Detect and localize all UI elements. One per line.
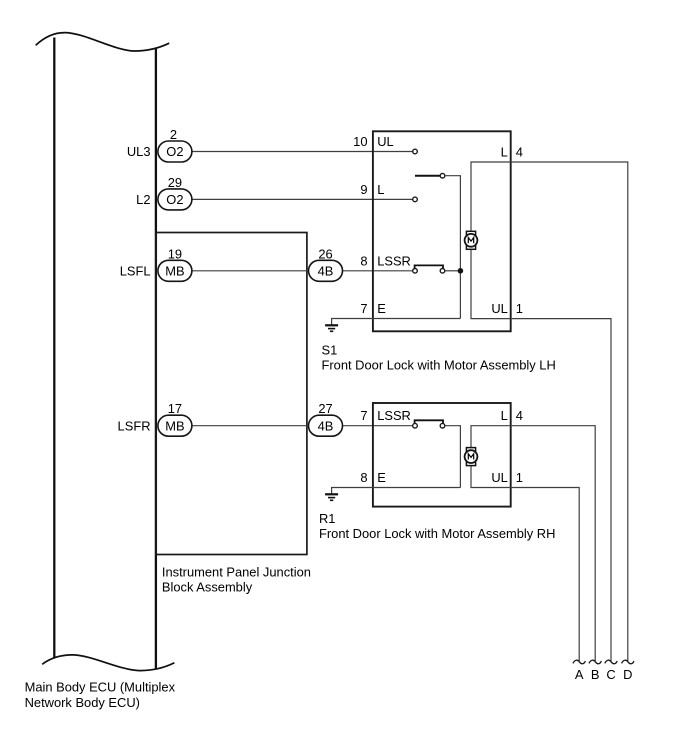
wire break D bbox=[622, 660, 634, 664]
pin 9 terminal bbox=[413, 197, 418, 202]
ground R1 bbox=[325, 494, 338, 500]
connector O2 pin 2 bbox=[158, 141, 192, 162]
svg-text:Block Assembly: Block Assembly bbox=[162, 580, 253, 595]
svg-text:E: E bbox=[377, 470, 386, 485]
switch arm (common pole) bbox=[415, 175, 440, 177]
wire L2 row: O2 oval to LH pin 9 bbox=[192, 198, 413, 200]
wire from arm to common vertical bbox=[445, 176, 461, 319]
wire LSSR contact to junction bbox=[445, 270, 461, 272]
wire UL3 row: O2 oval to LH pin 10 bbox=[192, 151, 413, 153]
pin 10 terminal bbox=[413, 149, 418, 154]
svg-text:UL: UL bbox=[377, 134, 393, 149]
bus bottom break (wavy line) bbox=[42, 655, 174, 671]
Main Body ECU bus: left vertical line bbox=[53, 38, 55, 658]
svg-text:7: 7 bbox=[360, 408, 367, 423]
Main Body ECU bus: right vertical line bbox=[155, 49, 157, 669]
svg-text:17: 17 bbox=[168, 401, 182, 416]
svg-text:29: 29 bbox=[168, 175, 182, 190]
wire break A bbox=[573, 660, 585, 664]
connector MB pin 19 bbox=[158, 260, 192, 281]
svg-text:S1: S1 bbox=[322, 343, 338, 358]
svg-text:UL: UL bbox=[491, 470, 507, 485]
svg-text:MB: MB bbox=[165, 418, 184, 433]
wire E to ground RH bbox=[332, 488, 461, 494]
wire break C bbox=[605, 660, 617, 664]
connector 4B pin 26 bbox=[309, 260, 343, 281]
svg-text:19: 19 bbox=[168, 246, 182, 261]
svg-text:LSFL: LSFL bbox=[120, 264, 151, 279]
motor circuit wire RH bbox=[471, 426, 595, 661]
svg-text:LSSR: LSSR bbox=[377, 408, 411, 423]
svg-text:8: 8 bbox=[360, 470, 367, 485]
svg-text:Instrument Panel Junction: Instrument Panel Junction bbox=[162, 565, 311, 580]
svg-text:O2: O2 bbox=[166, 144, 183, 159]
svg-text:Front Door Lock with Motor Ass: Front Door Lock with Motor Assembly RH bbox=[319, 526, 555, 541]
svg-text:1: 1 bbox=[516, 301, 523, 316]
Instrument Panel Junction Block Assembly box bbox=[156, 233, 307, 555]
switch LSSR closed contact bbox=[413, 269, 418, 274]
svg-text:UL3: UL3 bbox=[127, 144, 151, 159]
svg-text:4: 4 bbox=[516, 145, 523, 160]
wire break B bbox=[589, 660, 601, 664]
svg-text:L: L bbox=[501, 408, 508, 423]
svg-text:9: 9 bbox=[360, 182, 367, 197]
svg-text:Main Body ECU (Multiplex: Main Body ECU (Multiplex bbox=[25, 680, 176, 695]
svg-text:7: 7 bbox=[360, 301, 367, 316]
wire E to ground bbox=[332, 319, 461, 325]
junction dot bbox=[458, 268, 464, 274]
motor M2 (RH) bbox=[465, 448, 478, 466]
ground S1 bbox=[325, 325, 338, 331]
connector MB pin 17 bbox=[158, 415, 192, 436]
svg-text:Front Door Lock with Motor Ass: Front Door Lock with Motor Assembly LH bbox=[322, 358, 556, 373]
motor M1 (LH) bbox=[465, 231, 478, 249]
svg-text:L: L bbox=[501, 145, 508, 160]
svg-text:4B: 4B bbox=[318, 418, 334, 433]
svg-text:C: C bbox=[606, 667, 615, 682]
svg-text:Network Body ECU): Network Body ECU) bbox=[25, 695, 140, 710]
svg-text:LSSR: LSSR bbox=[377, 254, 411, 269]
svg-text:27: 27 bbox=[318, 401, 332, 416]
svg-text:10: 10 bbox=[353, 134, 367, 149]
component box R1 bbox=[373, 403, 511, 507]
svg-text:O2: O2 bbox=[166, 192, 183, 207]
wire contact to common vertical RH bbox=[445, 426, 461, 488]
svg-text:R1: R1 bbox=[319, 511, 335, 526]
wire LSFR row: MB oval to 4B oval to RH pin 7 bbox=[192, 425, 413, 427]
svg-text:B: B bbox=[591, 667, 600, 682]
svg-text:D: D bbox=[623, 667, 632, 682]
connector O2 pin 29 bbox=[158, 189, 192, 210]
svg-text:26: 26 bbox=[318, 246, 332, 261]
svg-text:4B: 4B bbox=[318, 264, 334, 279]
svg-text:2: 2 bbox=[170, 127, 177, 142]
svg-text:8: 8 bbox=[360, 254, 367, 269]
switch LSSR closed contact RH bbox=[413, 423, 418, 428]
svg-text:UL: UL bbox=[491, 301, 507, 316]
svg-text:4: 4 bbox=[516, 408, 523, 423]
svg-text:MB: MB bbox=[165, 264, 184, 279]
motor circuit wire LH bbox=[471, 162, 628, 661]
svg-text:E: E bbox=[377, 301, 386, 316]
svg-text:A: A bbox=[575, 667, 584, 682]
svg-text:L2: L2 bbox=[136, 192, 150, 207]
bus top break (wavy line) bbox=[36, 33, 170, 51]
svg-text:LSFR: LSFR bbox=[118, 418, 151, 433]
wire LSFL row: MB oval to 4B oval to LH pin 8 bbox=[192, 270, 413, 272]
svg-text:L: L bbox=[377, 182, 384, 197]
component box S1 bbox=[373, 131, 511, 331]
connector 4B pin 27 bbox=[309, 415, 343, 436]
svg-text:1: 1 bbox=[516, 470, 523, 485]
